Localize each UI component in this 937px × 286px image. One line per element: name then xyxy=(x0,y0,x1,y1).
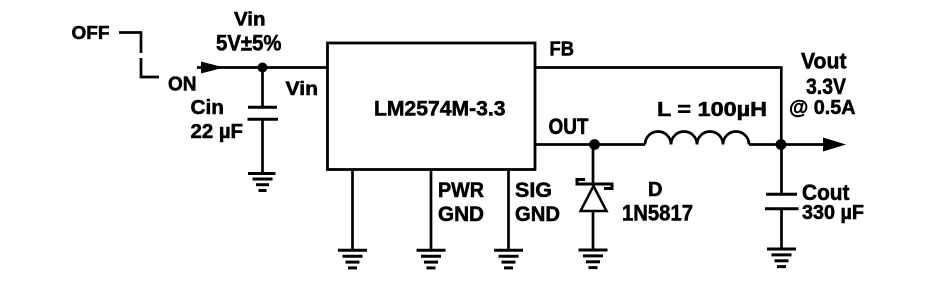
wire FB net xyxy=(535,68,781,146)
label Vin pin xyxy=(286,78,319,100)
svg-text:Vin: Vin xyxy=(286,78,319,100)
diode D 1N5817 schottky xyxy=(577,180,612,212)
ground Cin xyxy=(248,174,276,191)
label Vout xyxy=(801,49,847,74)
svg-text:Cin: Cin xyxy=(191,96,225,119)
svg-text:Vin: Vin xyxy=(234,10,266,31)
node output junction xyxy=(776,139,787,150)
svg-text:GND: GND xyxy=(438,202,484,226)
label 3.3V xyxy=(806,74,846,99)
label FB xyxy=(550,39,575,61)
wire OUT node to diode xyxy=(592,145,595,185)
label @ 0.5A xyxy=(789,96,856,119)
ground PWR GND xyxy=(417,250,446,268)
label 5V±5% xyxy=(216,31,282,56)
inductor L xyxy=(645,132,749,145)
wire pin 1 to ground xyxy=(351,169,354,249)
ground diode xyxy=(579,250,608,268)
wire switch OFF arm xyxy=(119,33,159,78)
svg-text:OUT: OUT xyxy=(549,114,589,139)
label Cin xyxy=(191,96,225,119)
svg-text:GND: GND xyxy=(515,202,560,226)
svg-text:@ 0.5A: @ 0.5A xyxy=(789,96,856,119)
label Cout xyxy=(802,180,850,205)
label ON xyxy=(168,73,197,95)
wire output node to Cout xyxy=(780,145,783,194)
svg-text:D: D xyxy=(648,179,663,201)
label 1N5817 xyxy=(622,201,693,226)
capacitor Cout xyxy=(765,194,799,209)
svg-text:330 µF: 330 µF xyxy=(802,202,864,224)
op-amp U1 LM2574M-3.3 box xyxy=(328,43,536,170)
svg-text:FB: FB xyxy=(550,39,575,61)
svg-text:SIG: SIG xyxy=(515,178,552,202)
node input junction xyxy=(258,63,268,73)
svg-text:L = 100µH: L = 100µH xyxy=(657,99,767,121)
label L = 100µH xyxy=(657,99,767,121)
ground pin 1 xyxy=(338,250,367,268)
ground SIG GND xyxy=(494,250,523,268)
wire inductor to output node xyxy=(749,143,781,146)
svg-text:LM2574M-3.3: LM2574M-3.3 xyxy=(374,96,506,120)
wire PWR GND pin to ground xyxy=(430,169,433,249)
label SIG GND xyxy=(515,178,560,226)
wire SIG GND pin to ground xyxy=(507,169,510,249)
svg-text:5V±5%: 5V±5% xyxy=(216,31,282,56)
label PWR GND xyxy=(438,178,484,226)
node OUT junction xyxy=(589,139,600,150)
label D xyxy=(648,179,663,201)
svg-text:Vout: Vout xyxy=(801,49,847,74)
wire node to Cin xyxy=(261,68,264,107)
label OUT xyxy=(549,114,589,139)
label 330 µF xyxy=(802,202,864,224)
svg-text:ON: ON xyxy=(168,73,197,95)
svg-text:22 µF: 22 µF xyxy=(191,121,244,143)
svg-text:PWR: PWR xyxy=(438,178,484,202)
svg-text:1N5817: 1N5817 xyxy=(622,201,693,226)
label Vin source xyxy=(234,10,266,31)
svg-text:OFF: OFF xyxy=(72,23,110,43)
wire output arrow xyxy=(781,138,846,152)
ground Cout xyxy=(767,249,796,267)
wire OUT pin to inductor xyxy=(535,143,645,146)
wire input with arrow xyxy=(197,62,327,74)
label LM2574M-3.3 xyxy=(374,96,506,120)
label 22 µF xyxy=(191,121,244,143)
wire Cout to ground xyxy=(780,209,783,248)
capacitor Cin xyxy=(248,107,279,119)
label OFF xyxy=(72,23,110,43)
wire Cin to ground xyxy=(261,120,264,173)
wire diode to ground xyxy=(592,211,595,249)
